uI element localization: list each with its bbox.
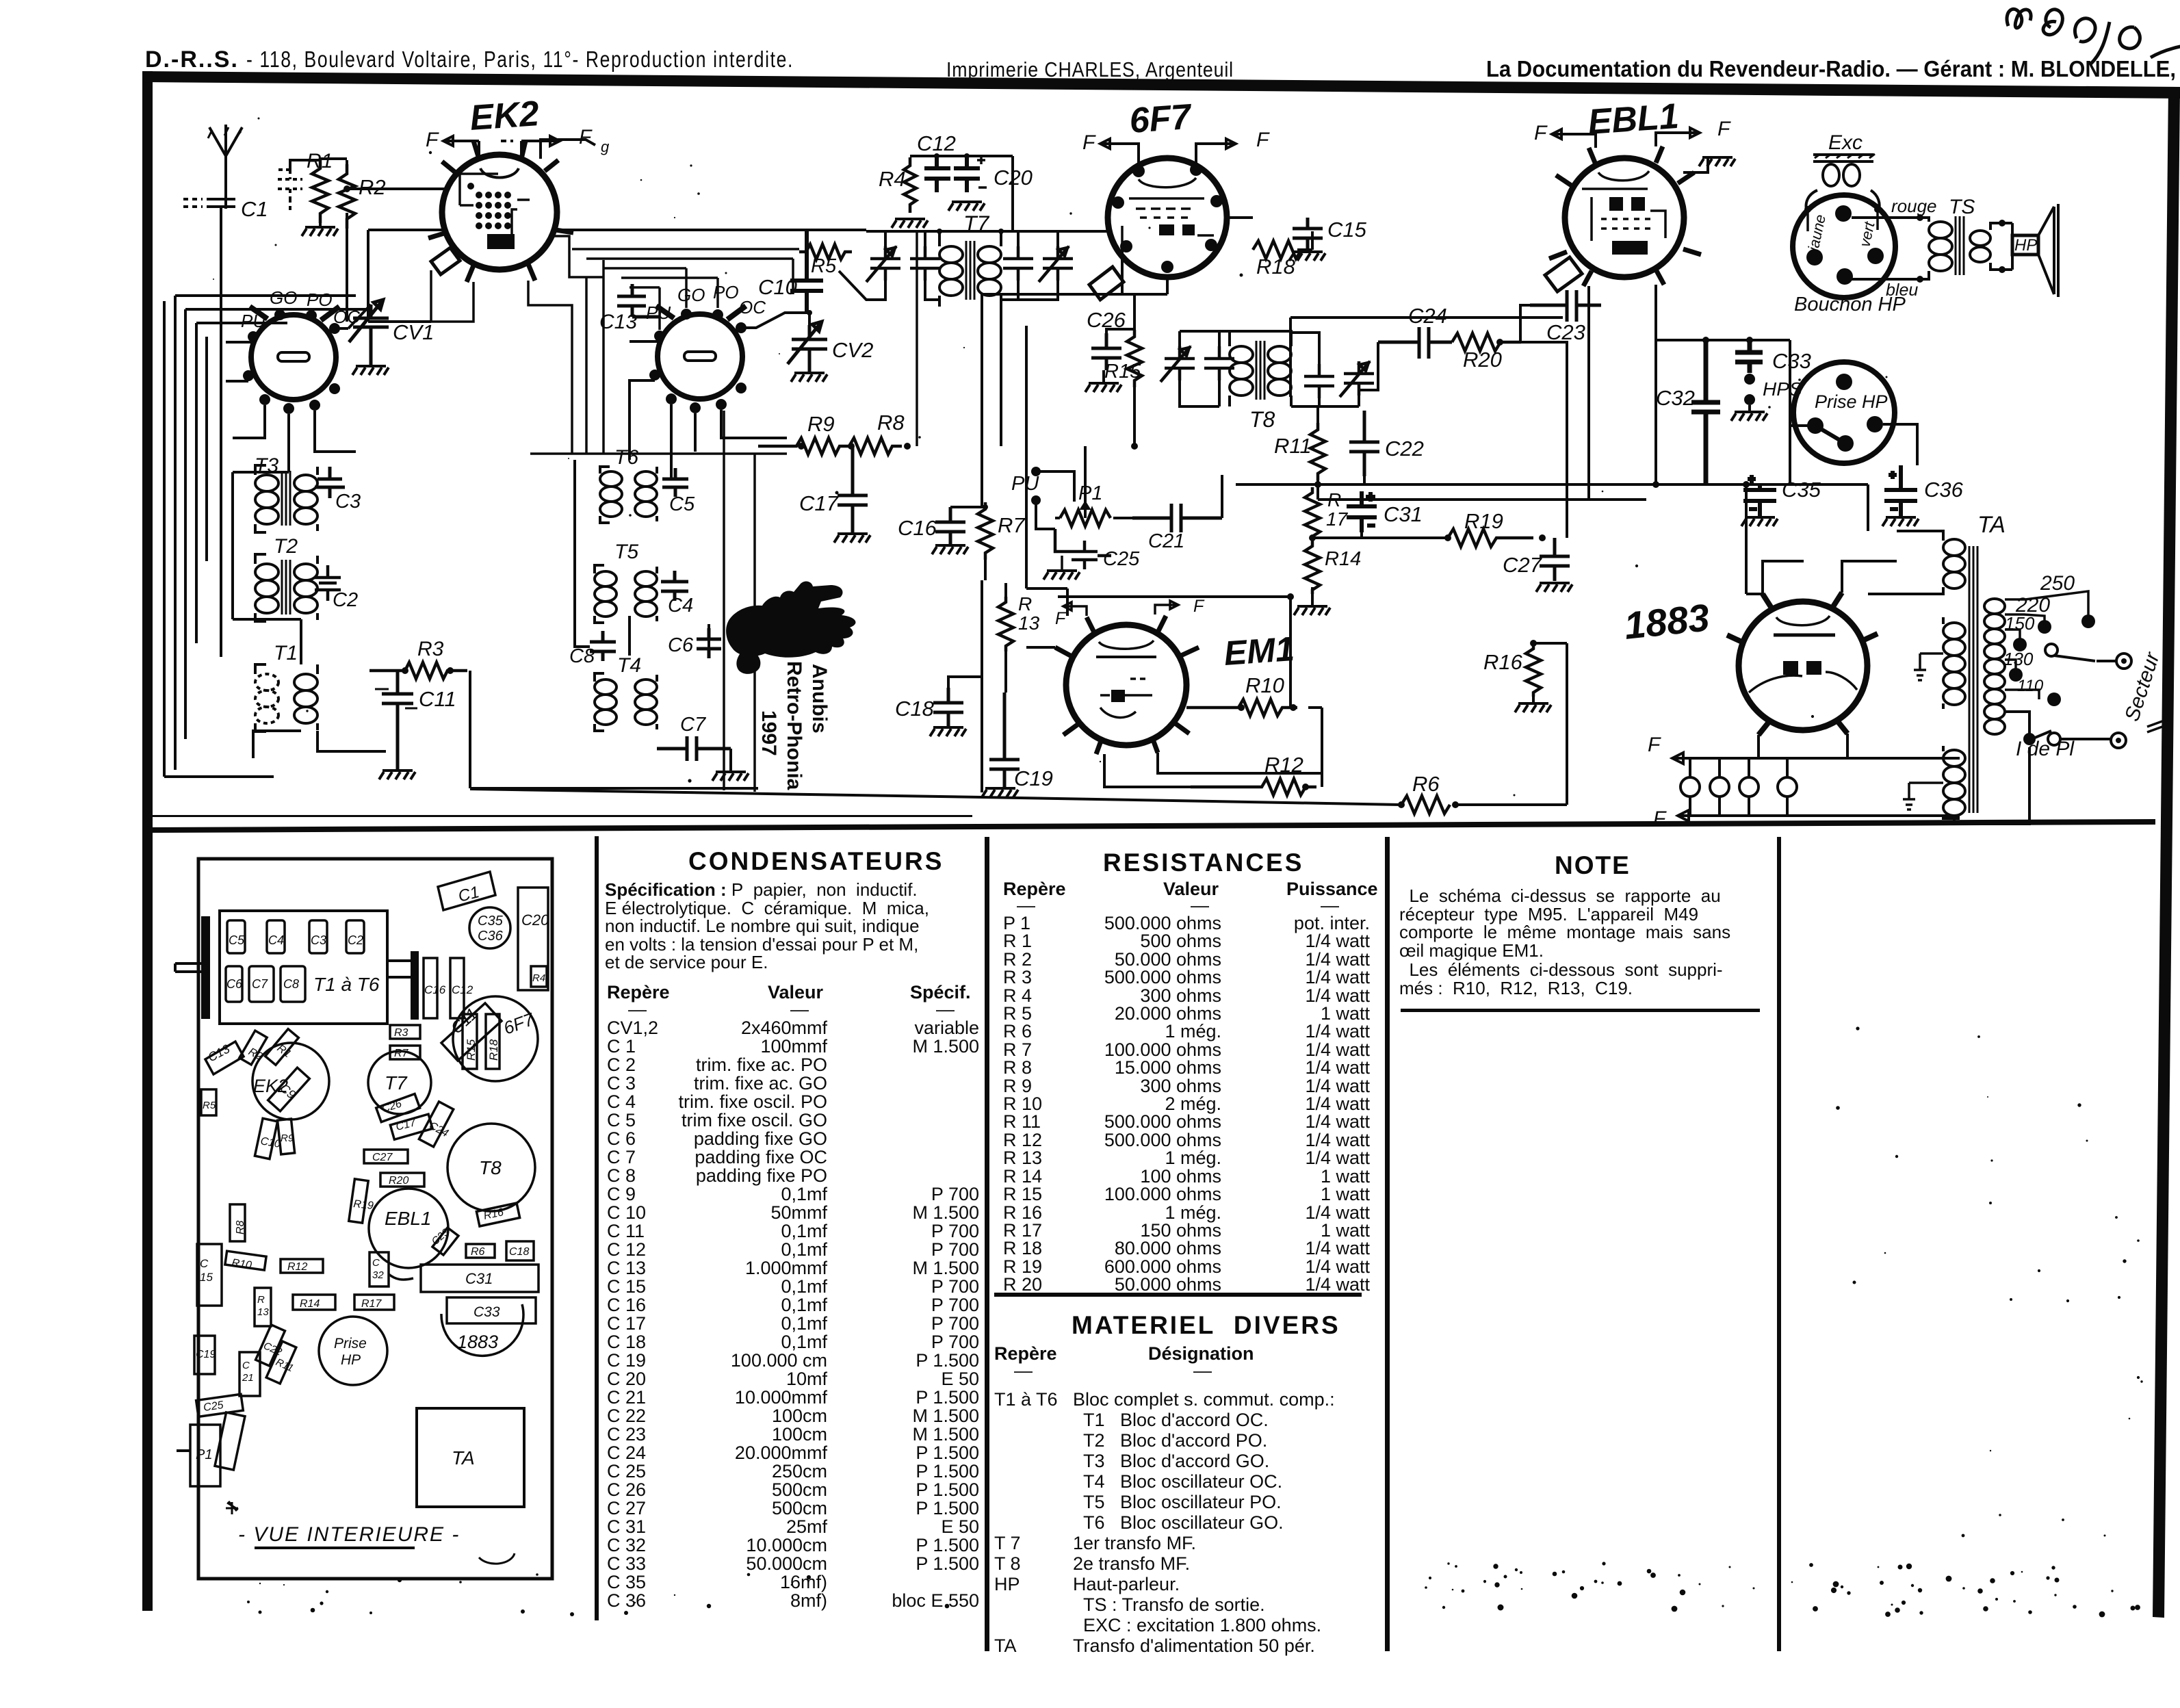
svg-text:6F7: 6F7 xyxy=(501,1009,538,1039)
capacitor C17 xyxy=(799,446,868,532)
socket Bouchon HP xyxy=(1793,195,1906,315)
svg-text:R10: R10 xyxy=(1245,673,1284,697)
svg-text:rouge: rouge xyxy=(1891,196,1937,216)
svg-text:17: 17 xyxy=(1326,508,1349,530)
wire R2 bottom down xyxy=(346,213,348,322)
transformer T1 xyxy=(255,642,317,732)
svg-text:F: F xyxy=(1082,131,1096,154)
transformer T2 xyxy=(255,535,317,621)
chassis R6 C18 xyxy=(466,1241,534,1260)
resistor R19 xyxy=(1444,509,1546,547)
svg-text:C4: C4 xyxy=(268,933,284,947)
svg-text:- 118, Boulevard Voltaire, Par: - 118, Boulevard Voltaire, Paris, 11°- R… xyxy=(246,47,794,72)
svg-text:C1: C1 xyxy=(241,197,268,221)
svg-text:C22: C22 xyxy=(1385,437,1424,461)
loudspeaker HP xyxy=(2012,204,2058,297)
svg-text:C27: C27 xyxy=(372,1152,393,1163)
svg-text:C36: C36 xyxy=(478,929,504,944)
svg-text:T1 à T6: T1 à T6 xyxy=(313,974,380,995)
svg-text:32: 32 xyxy=(372,1269,384,1281)
svg-text:HP: HP xyxy=(341,1352,361,1368)
capacitor C20 xyxy=(954,156,1033,192)
svg-text:C6: C6 xyxy=(226,977,243,991)
resistor R12 xyxy=(1191,753,1316,795)
ground under C26 xyxy=(1085,370,1121,392)
spade electrode 6F7 xyxy=(1089,267,1124,300)
tube EBL1 xyxy=(1549,96,1701,286)
ground under T4 xyxy=(712,749,749,781)
left feeder rails to coil block xyxy=(164,296,369,777)
svg-text:C23: C23 xyxy=(1546,320,1585,344)
svg-text:Secteur: Secteur xyxy=(2120,649,2164,724)
chassis R16 xyxy=(476,1203,519,1226)
transformer T7 with trimmers xyxy=(839,211,1073,446)
tube 1883 xyxy=(1622,593,1878,735)
chassis C23 xyxy=(430,1226,458,1255)
tube socket S1 (bloc accord switch) xyxy=(241,287,360,414)
svg-text:EM1: EM1 xyxy=(1223,630,1295,673)
capacitor (dashed, aerial trimmer) xyxy=(276,170,302,211)
svg-text:21: 21 xyxy=(242,1372,254,1384)
dial lamps xyxy=(1681,758,1797,816)
svg-text:R12: R12 xyxy=(287,1261,307,1273)
svg-text:C: C xyxy=(372,1257,380,1269)
resistors R9 R8 xyxy=(758,411,911,454)
svg-text:C15: C15 xyxy=(1327,218,1367,242)
wire AVC line down xyxy=(724,411,755,792)
chassis view panel (vue interieure) xyxy=(198,859,552,1579)
wire EM1 bottom loop xyxy=(1104,708,1322,787)
svg-text:C: C xyxy=(242,1360,250,1371)
heater F arrows EM1 xyxy=(1055,597,1205,628)
svg-text:D.-R..S.: D.-R..S. xyxy=(145,47,239,73)
wire T1/T2 returns xyxy=(233,472,386,758)
PU pickup terminals xyxy=(1011,467,1074,529)
transformer T5 xyxy=(595,541,657,623)
svg-text:C25: C25 xyxy=(203,1399,224,1414)
svg-text:C5: C5 xyxy=(669,493,695,515)
wire R17/R14/C31 node to R19 xyxy=(1309,532,1448,541)
resistor R1 xyxy=(307,150,333,223)
svg-text:Anubis: Anubis xyxy=(808,664,831,734)
resistor R11 xyxy=(1274,406,1325,484)
svg-text:F: F xyxy=(1193,597,1205,616)
svg-text:13: 13 xyxy=(257,1306,269,1318)
svg-text:R15: R15 xyxy=(1104,361,1141,383)
svg-text:R: R xyxy=(1327,489,1341,510)
ground under C15 xyxy=(1289,252,1325,261)
chassis C33 and 1883 xyxy=(441,1297,536,1356)
svg-text:R2: R2 xyxy=(359,175,386,199)
svg-text:R7: R7 xyxy=(394,1048,409,1059)
ground under CV2 xyxy=(791,373,827,382)
svg-text:P1: P1 xyxy=(196,1447,212,1462)
wire C12/C20 top bus xyxy=(910,153,1013,231)
wire C24 feed xyxy=(1359,305,1568,406)
svg-text:C25: C25 xyxy=(1103,548,1140,570)
svg-text:C18: C18 xyxy=(509,1246,529,1258)
ground under HPS xyxy=(1731,405,1767,421)
capacitor C6 xyxy=(668,628,721,658)
svg-text:C21: C21 xyxy=(1148,530,1184,552)
heater F arrows EK2 xyxy=(426,126,593,155)
svg-text:C3: C3 xyxy=(311,933,326,947)
svg-text:15: 15 xyxy=(200,1271,213,1284)
svg-text:Imprimerie CHARLES, Argenteuil: Imprimerie CHARLES, Argenteuil xyxy=(946,57,1234,81)
svg-text:CV1: CV1 xyxy=(393,320,434,344)
resistor R15 xyxy=(1104,330,1142,387)
chassis gang coupler xyxy=(387,951,419,1020)
chassis R2 R1 C9 xyxy=(239,1029,309,1111)
svg-text:F: F xyxy=(1717,118,1731,140)
wire HT bus to Prise HP xyxy=(1656,337,1790,426)
svg-text:C35: C35 xyxy=(1782,478,1821,502)
chassis C27 R20 xyxy=(364,1150,424,1187)
capacitor C19 xyxy=(989,693,1053,790)
svg-text:R16: R16 xyxy=(1483,650,1523,674)
main HT bus xyxy=(1236,481,1785,488)
svg-text:OC: OC xyxy=(739,297,766,318)
chassis R19 xyxy=(349,1179,374,1223)
wire node to EK2 grid xyxy=(347,187,446,190)
chassis R3 R7 xyxy=(390,1025,420,1059)
svg-text:R17: R17 xyxy=(361,1298,382,1310)
svg-text:La Documentation du Revendeur-: La Documentation du Revendeur-Radio. — G… xyxy=(1486,56,2176,81)
wire R1 top to node xyxy=(290,159,350,192)
wire mesh to mixer grid xyxy=(572,249,799,330)
resistor R4 xyxy=(879,157,916,213)
capacitor C35 xyxy=(1743,475,1821,516)
svg-text:C16: C16 xyxy=(898,516,937,540)
HPS terminals xyxy=(1744,374,1802,405)
svg-text:C35: C35 xyxy=(478,914,504,929)
svg-text:C18: C18 xyxy=(895,697,935,721)
vue interieure caption xyxy=(238,1523,515,1564)
capacitor C8 xyxy=(569,631,616,667)
wire 6F7 cathode down xyxy=(982,249,1167,507)
ground under C18 xyxy=(930,727,966,736)
resistor R10 xyxy=(1186,673,1297,716)
svg-text:HP: HP xyxy=(2014,236,2037,255)
chassis EK2 xyxy=(252,1043,329,1120)
svg-text:C7: C7 xyxy=(680,714,707,736)
svg-text:T8: T8 xyxy=(479,1157,502,1178)
capacitor C15 xyxy=(1293,218,1367,249)
svg-text:C10: C10 xyxy=(758,275,797,299)
transformer TS xyxy=(1852,196,2012,300)
chassis tuning shaft xyxy=(175,916,210,1019)
capacitor C2 (trimmer) xyxy=(315,565,358,611)
svg-text:Prise HP: Prise HP xyxy=(1815,391,1888,412)
chassis R8 xyxy=(230,1204,246,1241)
chassis R10 R12 xyxy=(225,1251,323,1273)
svg-text:C: C xyxy=(200,1257,209,1270)
chassis T8 xyxy=(447,1124,535,1211)
wire EK2 plate bus xyxy=(556,229,866,231)
ground under C35 xyxy=(1741,517,1778,526)
svg-text:Prise: Prise xyxy=(334,1336,367,1351)
Anubis watermark blob xyxy=(726,582,855,674)
svg-text:T4: T4 xyxy=(617,654,641,677)
capacitor C5 xyxy=(662,468,695,515)
svg-text:T6: T6 xyxy=(614,446,638,469)
svg-text:C11: C11 xyxy=(419,687,456,711)
svg-text:R10: R10 xyxy=(231,1257,252,1271)
wire EK2 top-right to grid cap xyxy=(541,138,610,159)
chassis C35 C36 xyxy=(469,907,510,948)
svg-text:I de Pl: I de Pl xyxy=(2016,738,2075,760)
scan speckle noise xyxy=(213,118,2143,1618)
svg-text:R9: R9 xyxy=(281,1133,294,1144)
svg-text:- VUE INTERIEURE -: - VUE INTERIEURE - xyxy=(238,1523,460,1546)
tube EM1 xyxy=(1055,616,1295,754)
svg-text:1883: 1883 xyxy=(1622,595,1711,647)
capacitor C1 xyxy=(183,197,268,657)
capacitor C4 xyxy=(661,571,693,617)
svg-text:C2: C2 xyxy=(348,933,363,947)
resistor R18 xyxy=(1253,241,1301,279)
ground under R14 xyxy=(1294,587,1330,615)
svg-text:R8: R8 xyxy=(235,1220,246,1234)
svg-text:R5: R5 xyxy=(203,1100,216,1111)
capacitor C21 xyxy=(1132,504,1222,552)
tube EK2 xyxy=(428,94,573,282)
wire 6F7 to EM1 rail xyxy=(982,326,1067,792)
chassis C1 xyxy=(438,872,495,910)
svg-text:R14: R14 xyxy=(1325,548,1361,570)
svg-text:R11: R11 xyxy=(1274,434,1312,458)
svg-text:R6: R6 xyxy=(1412,772,1440,796)
svg-text:bleu: bleu xyxy=(1886,281,1918,300)
svg-text:1997: 1997 xyxy=(757,710,780,756)
resistor R13 xyxy=(998,583,1040,693)
svg-text:C33: C33 xyxy=(1772,349,1811,373)
svg-text:C12: C12 xyxy=(452,983,473,996)
svg-text:F: F xyxy=(1653,807,1667,830)
wire R3 to bottom bus xyxy=(470,671,758,788)
svg-text:T5: T5 xyxy=(614,541,638,563)
capacitor C11 xyxy=(375,671,456,769)
wire 6F7 plate to R18 xyxy=(1227,218,1312,250)
wire EM1 top rail xyxy=(1026,593,1294,708)
resistor R2 xyxy=(339,164,386,229)
chassis C10 R9 xyxy=(255,1118,294,1159)
chassis R14 R17 xyxy=(293,1295,394,1310)
transformer T6 xyxy=(600,446,657,523)
capacitor C24 xyxy=(1378,304,1452,359)
heater F arrows EBL1 xyxy=(1534,118,1731,148)
svg-text:R3: R3 xyxy=(417,638,444,660)
svg-text:C2: C2 xyxy=(333,589,358,611)
wire S2 OC to CV2 xyxy=(741,310,812,328)
variable capacitor CV1 xyxy=(349,300,434,365)
chassis C15 xyxy=(197,1244,222,1306)
svg-text:C17: C17 xyxy=(395,1117,418,1133)
capacitor C25 xyxy=(1055,529,1140,570)
svg-text:R4: R4 xyxy=(532,972,545,984)
svg-text:PO: PO xyxy=(713,282,739,302)
svg-text:C27: C27 xyxy=(1503,553,1543,577)
svg-text:C3: C3 xyxy=(335,491,361,513)
resistor R3 xyxy=(369,638,467,679)
svg-text:R3: R3 xyxy=(394,1027,408,1039)
mains taps 250/220/150/130/110 xyxy=(1954,572,2164,824)
svg-text:R19: R19 xyxy=(353,1198,374,1212)
wire R8 to T7 plate rail xyxy=(916,231,918,446)
svg-text:GO: GO xyxy=(270,287,297,308)
ground under R4 xyxy=(892,218,928,228)
svg-text:R15: R15 xyxy=(465,1039,478,1061)
ground under C27 xyxy=(1536,583,1572,592)
svg-text:R6: R6 xyxy=(471,1246,485,1258)
svg-text:C1: C1 xyxy=(456,883,481,906)
capacitor C16 xyxy=(898,507,965,544)
chassis P1 xyxy=(177,1412,245,1486)
capacitor C32 xyxy=(1656,340,1720,484)
wire S1 OC to CV1 xyxy=(335,305,371,328)
wire TA HT winding to C35 xyxy=(1785,484,1868,531)
transformer T3 xyxy=(255,454,317,532)
svg-text:TS: TS xyxy=(1949,196,1975,218)
svg-text:R20: R20 xyxy=(389,1175,408,1187)
ground under C16 xyxy=(932,545,968,554)
svg-text:T8: T8 xyxy=(1249,407,1275,432)
tube socket S2 (bloc oscillateur switch) xyxy=(646,282,766,413)
svg-text:C26: C26 xyxy=(380,1098,403,1115)
heater F arrows 6F7 xyxy=(1082,129,1270,164)
resistor R5 xyxy=(799,244,852,277)
chassis R5 xyxy=(201,1089,216,1115)
svg-text:T7: T7 xyxy=(385,1072,408,1094)
wire 1883 filament to lamps xyxy=(1759,734,1960,818)
chassis C16 C12 xyxy=(424,958,547,1018)
heater line F lower xyxy=(1653,807,1960,830)
svg-text:C6: C6 xyxy=(668,634,694,656)
svg-text:TA: TA xyxy=(452,1447,475,1468)
capacitor C18 xyxy=(895,677,982,726)
ground under R1 xyxy=(302,223,338,236)
chassis Prise HP xyxy=(319,1317,387,1385)
capacitor C26 xyxy=(1087,308,1126,370)
svg-text:250: 250 xyxy=(2040,572,2075,595)
svg-text:TA: TA xyxy=(1977,512,2006,538)
svg-text:PU: PU xyxy=(646,302,671,323)
chassis C22 R11 xyxy=(256,1325,296,1384)
chassis T7 xyxy=(368,1051,431,1114)
wire S2 bottom pins to T6/T5/T4 xyxy=(630,341,787,479)
capacitor C36 xyxy=(1884,465,1964,516)
resistor R16 xyxy=(1483,640,1541,697)
wire P1 wiper chain xyxy=(1085,446,1222,518)
chassis C11 xyxy=(441,1003,502,1061)
svg-text:Retro-Phonia: Retro-Phonia xyxy=(783,661,805,790)
Exc field coil xyxy=(1804,131,1881,213)
capacitor C31 xyxy=(1347,491,1423,532)
svg-text:R14: R14 xyxy=(300,1298,320,1310)
svg-text:F: F xyxy=(1055,609,1067,628)
spade electrode EBL1 xyxy=(1545,257,1582,292)
ground under R16 xyxy=(1515,697,1551,712)
wire R15 node xyxy=(1106,294,1138,450)
wire R11/C22 returns xyxy=(1314,476,1646,500)
svg-text:C4: C4 xyxy=(668,595,693,617)
wire EBL1 grid bus xyxy=(1290,318,1563,397)
svg-text:EBL1: EBL1 xyxy=(1587,96,1681,142)
chassis C20 xyxy=(518,888,549,990)
svg-text:R9: R9 xyxy=(807,412,835,436)
variable capacitor CV2 xyxy=(788,322,873,372)
svg-text:C7: C7 xyxy=(252,977,268,991)
capacitor C7 xyxy=(657,714,731,761)
capacitor C3 xyxy=(315,467,361,513)
svg-text:C8: C8 xyxy=(569,645,595,667)
chassis C19 C21 C25 xyxy=(194,1336,260,1416)
wire R7/C16 node xyxy=(950,504,988,580)
svg-text:6F7: 6F7 xyxy=(1128,97,1194,141)
svg-text:C19: C19 xyxy=(196,1349,216,1360)
Anubis watermark text xyxy=(757,661,831,790)
svg-text:R: R xyxy=(257,1294,265,1306)
capacitor C27 xyxy=(1503,538,1570,581)
ground under C11 xyxy=(379,771,415,779)
svg-text:C24: C24 xyxy=(1408,304,1447,328)
tube 6F7 xyxy=(1108,97,1227,277)
svg-text:F: F xyxy=(1648,734,1661,756)
capacitor C13 xyxy=(599,284,660,333)
wire 1883 plate to TA xyxy=(1656,484,1897,594)
ground under CV1 xyxy=(352,366,389,375)
svg-text:T1: T1 xyxy=(274,642,298,664)
svg-text:EBL1: EBL1 xyxy=(385,1208,432,1229)
capacitor C33 xyxy=(1735,340,1811,373)
svg-text:GO: GO xyxy=(677,285,705,305)
svg-text:R7: R7 xyxy=(998,513,1026,537)
wire R16 top to rail xyxy=(1533,642,1567,645)
heater line F upper xyxy=(1648,734,1960,764)
antenna xyxy=(208,125,242,209)
staircase wires EK2 to mixer section xyxy=(431,236,787,454)
svg-text:g: g xyxy=(601,138,610,155)
chassis C32 C31 xyxy=(369,1252,538,1292)
svg-text:PO: PO xyxy=(307,289,333,310)
svg-text:C13: C13 xyxy=(599,311,637,333)
transformer T8 with trimmers xyxy=(1160,330,1374,432)
svg-text:F: F xyxy=(426,129,439,151)
svg-text:C31: C31 xyxy=(465,1270,493,1287)
resistor R6 xyxy=(1398,772,1459,814)
svg-text:C12: C12 xyxy=(917,131,956,155)
ground under C17 xyxy=(834,534,870,543)
resistor R7 xyxy=(978,502,1026,560)
svg-text:C17: C17 xyxy=(799,491,840,515)
svg-text:C31: C31 xyxy=(1384,502,1423,526)
svg-text:vert: vert xyxy=(1856,220,1878,248)
svg-text:13: 13 xyxy=(1018,612,1040,634)
socket Prise HP xyxy=(1793,362,1895,463)
ground EBL1 top right xyxy=(1683,157,1735,172)
svg-text:R19: R19 xyxy=(1464,509,1503,533)
capacitor C23 xyxy=(1530,290,1601,344)
ground under C19 xyxy=(982,788,1018,797)
bottom bus wire xyxy=(470,643,1567,805)
chassis R13 xyxy=(255,1288,271,1326)
svg-text:R8: R8 xyxy=(877,411,905,435)
wire T7 secondary to 6F7 xyxy=(1033,230,1108,233)
table column separators xyxy=(595,836,1781,1651)
spade electrode EK2 xyxy=(431,248,460,274)
svg-text:P1: P1 xyxy=(1078,482,1102,504)
ground under C25 xyxy=(1043,556,1080,580)
